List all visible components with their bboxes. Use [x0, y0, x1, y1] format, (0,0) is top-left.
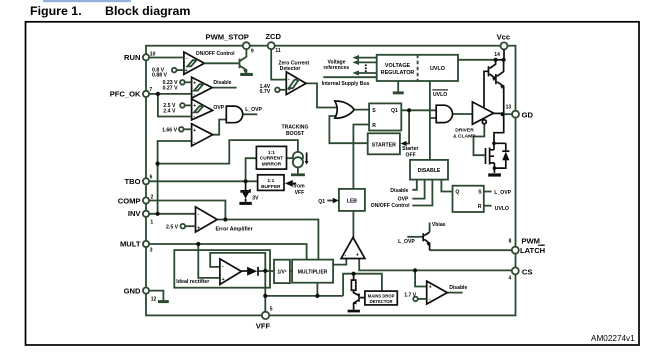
svg-text:5: 5	[270, 306, 273, 312]
pin 4 CS	[512, 267, 519, 274]
ref 2.5V circle	[180, 103, 185, 108]
wire mains drop divider	[343, 274, 382, 296]
svg-text:S: S	[478, 189, 482, 195]
starter off arrow	[401, 141, 407, 146]
driver triangle U9	[472, 102, 493, 124]
svg-text:AM02274v1: AM02274v1	[591, 334, 635, 343]
svg-text:Figure 1.: Figure 1.	[30, 4, 82, 18]
ground GND pin	[158, 300, 169, 303]
svg-text:BUFFER: BUFFER	[261, 184, 281, 190]
pin 12 GND	[143, 288, 149, 294]
wire UVLO stub to AND gate	[430, 117, 436, 119]
wire diode out to 1/V2	[258, 270, 274, 272]
svg-text:9: 9	[251, 49, 254, 55]
zener diode 3V	[245, 181, 247, 191]
svg-text:MAINS DROP: MAINS DROP	[368, 294, 395, 299]
svg-text:R: R	[478, 204, 482, 210]
wire MULT branch to ideal rectifier plus	[198, 244, 220, 278]
pin 1 INV	[143, 211, 149, 217]
svg-text:L_OVP: L_OVP	[245, 107, 262, 113]
node INV junction	[156, 212, 160, 216]
pin 8 PWM_LATCH	[512, 247, 519, 254]
MOSFET M1	[486, 148, 490, 165]
svg-text:+: +	[197, 225, 200, 231]
current source arrow	[306, 153, 308, 162]
op-amp U6 rectifier	[220, 259, 242, 285]
node COMP-EA out	[223, 217, 227, 221]
wire 1.66V comp output to AND gate	[213, 120, 227, 135]
transistor Q4 lower	[495, 74, 497, 84]
svg-text:OFF: OFF	[406, 152, 416, 158]
wire latch Q1 to AND gate	[401, 109, 436, 111]
svg-text:ON/OFF Control: ON/OFF Control	[196, 51, 235, 57]
svg-text:2: 2	[151, 195, 154, 201]
wire CS to PWM comparator plus	[359, 259, 512, 271]
wire MULT pin3 to multiplier	[149, 244, 307, 260]
svg-text:STARTER: STARTER	[372, 142, 396, 148]
current mirror box	[256, 146, 286, 169]
svg-text:MULT: MULT	[120, 240, 141, 249]
pin 7 PFC_OK	[143, 91, 149, 97]
current source I1	[293, 152, 303, 162]
AND gate L_OVP	[226, 106, 242, 123]
wire multiplier output to PWM comparator minus	[333, 259, 346, 265]
node mosfet diode top	[492, 142, 496, 146]
rail to transistors	[496, 59, 504, 61]
svg-text:REGULATOR: REGULATOR	[381, 70, 415, 76]
ref 2.5V circle EA	[181, 224, 186, 229]
pin 5 VFF	[262, 312, 269, 319]
wire Q1 branch starter off	[405, 110, 410, 143]
svg-text:+: +	[193, 80, 196, 86]
latch FF2 Q S R	[453, 186, 484, 212]
from VFF arrow	[285, 180, 293, 187]
pin 6 TBO	[143, 178, 149, 184]
pin 2 COMP	[143, 197, 149, 203]
wire COMP pin2 to EA output	[149, 201, 226, 220]
svg-text:0.88 V: 0.88 V	[152, 72, 168, 78]
svg-text:CURRENT: CURRENT	[260, 156, 284, 162]
svg-text:6: 6	[150, 175, 153, 181]
comparator U1 ON/OFF control	[184, 52, 204, 74]
svg-text:+: +	[222, 277, 225, 283]
wire CS branch to 1.7V comparator	[415, 270, 427, 286]
svg-text:COMP: COMP	[118, 197, 141, 206]
svg-text:Q1: Q1	[318, 199, 325, 205]
svg-text:7: 7	[149, 87, 152, 93]
svg-text:MIRROR: MIRROR	[262, 162, 282, 168]
hysteresis symbol U3	[194, 106, 203, 112]
svg-text:1: 1	[150, 219, 153, 225]
svg-text:CS: CS	[522, 267, 533, 276]
svg-text:8: 8	[509, 239, 512, 245]
wire pin7 branch down to OVP comparator minus	[158, 94, 192, 117]
ground mosfet	[488, 173, 501, 176]
wire AND to driver	[452, 113, 472, 115]
svg-text:4: 4	[509, 276, 512, 282]
pin 11 ZCD	[268, 42, 275, 49]
pin 14 Vcc	[501, 42, 508, 49]
ref 1.66V circle	[179, 127, 184, 132]
svg-text:Detector: Detector	[280, 66, 301, 72]
wire INV pin1 to error amplifier	[149, 213, 196, 215]
svg-text:1:1: 1:1	[267, 178, 274, 184]
box DISABLE	[410, 160, 448, 180]
diode D2 clamp	[494, 143, 506, 168]
svg-text:R: R	[372, 123, 376, 129]
AND gate G2 driver	[436, 105, 452, 122]
base wire to driver	[484, 71, 489, 108]
blue header underline	[43, 0, 131, 2]
node GD	[501, 112, 505, 116]
pin 10 RUN	[143, 54, 149, 60]
svg-text:DISABLE: DISABLE	[418, 168, 441, 174]
op-amp U5 error amplifier	[196, 207, 218, 232]
wire 1/V2 to multiplier	[290, 270, 292, 272]
svg-text:Disable: Disable	[213, 80, 231, 86]
wire PWM_LATCH pin8	[430, 249, 512, 251]
wire regulator to Vcc rail	[458, 59, 496, 61]
svg-text:L_OVP: L_OVP	[398, 239, 415, 245]
svg-text:DRIVER: DRIVER	[455, 127, 474, 133]
wire VFF pin5 vertical	[264, 271, 266, 312]
svg-text:BOOST: BOOST	[286, 131, 305, 137]
svg-text:UVLO: UVLO	[495, 206, 509, 212]
svg-text:0.27 V: 0.27 V	[163, 85, 179, 91]
wire driver apex to GD	[494, 112, 503, 114]
svg-text:Error Amplifier: Error Amplifier	[216, 226, 253, 232]
svg-text:DETECTOR: DETECTOR	[370, 299, 393, 304]
svg-text:3: 3	[150, 248, 153, 254]
svg-text:Disable: Disable	[390, 188, 408, 194]
box MULTIPLIER	[292, 260, 333, 283]
ground regulator	[393, 91, 404, 94]
node MULT branch	[196, 242, 200, 246]
wire disable stub2 ovp	[412, 180, 424, 199]
svg-text:Starter: Starter	[402, 146, 418, 152]
wire EA output to multiplier	[217, 220, 318, 260]
svg-text:OVP: OVP	[213, 105, 224, 111]
wire ZCD output to OR gate	[306, 83, 337, 107]
svg-text:Vbias: Vbias	[432, 222, 446, 228]
pin 9 PWM_STOP	[243, 42, 250, 49]
IC boundary box	[146, 46, 516, 316]
svg-text:2.4 V: 2.4 V	[163, 108, 176, 114]
ref 1.7V circle	[413, 297, 418, 302]
svg-text:GD: GD	[522, 110, 534, 119]
svg-text:references: references	[323, 65, 349, 71]
Vcc stub black	[503, 49, 505, 59]
node resistor divider	[352, 272, 356, 276]
comparator U8 zero current detector	[286, 72, 306, 95]
wire regulator ground stub	[397, 81, 399, 91]
wire OVP AND output stub L_OVP	[243, 113, 258, 115]
svg-text:1.66 V: 1.66 V	[162, 128, 178, 134]
node VFF	[263, 294, 267, 298]
hysteresis symbol U8	[289, 80, 299, 89]
wire rectifier feedback loop	[210, 253, 265, 271]
node TBO zener	[244, 179, 248, 183]
wire disable stub1	[412, 180, 417, 190]
latch FF1 S Q1 R	[369, 103, 401, 130]
svg-text:3V: 3V	[252, 195, 259, 201]
svg-text:VOLTAGE: VOLTAGE	[385, 63, 411, 69]
svg-text:+: +	[429, 284, 432, 290]
wire disable stub3 onoff	[412, 180, 432, 206]
wire U1 output to transistor base	[204, 62, 238, 64]
wire OR output to latch S	[352, 109, 369, 111]
wire tracking boost offset to current source	[158, 140, 298, 164]
wire multiplier VFF input	[316, 283, 318, 296]
svg-text:LATCH: LATCH	[520, 246, 545, 255]
svg-text:10: 10	[150, 52, 156, 58]
buffer box 1:1	[258, 175, 284, 191]
wire starter to OR gate input	[329, 116, 367, 143]
wire 1.7V comparator output stub	[447, 292, 462, 294]
svg-text:0.7V: 0.7V	[260, 89, 271, 95]
wire GND pin12 ground	[149, 291, 163, 301]
comparator U2 Disable	[192, 77, 213, 98]
svg-text:1.7 V: 1.7 V	[404, 293, 416, 299]
OR gate G1	[335, 101, 354, 118]
node mosfet diode bottom	[493, 166, 497, 170]
svg-text:Ideal rectifier: Ideal rectifier	[176, 279, 209, 285]
svg-text:UVLO: UVLO	[433, 92, 447, 98]
svg-text:TRACKING: TRACKING	[282, 124, 309, 130]
svg-text:PFC_OK: PFC_OK	[110, 90, 141, 99]
ground mains drop	[348, 310, 360, 313]
MOSFET drain path	[494, 114, 504, 150]
transistor Q2 L_OVP	[429, 223, 431, 233]
transistor Q3 upper	[488, 66, 490, 76]
wire TBO pin6 line	[149, 180, 258, 182]
svg-text:Q1: Q1	[391, 108, 398, 114]
node Vcc rail right	[502, 58, 506, 62]
wire VFF bus	[265, 295, 343, 297]
svg-text:Internal Supply Bus: Internal Supply Bus	[322, 81, 370, 87]
svg-text:Q: Q	[455, 190, 459, 196]
svg-text:+: +	[193, 128, 196, 134]
wire internal supply bus	[323, 76, 376, 78]
svg-text:INV: INV	[128, 209, 142, 218]
ellipsis dots	[365, 64, 367, 66]
wire current mirror to current source	[287, 157, 294, 159]
wire latch2 R stub	[484, 205, 492, 207]
node tracking boost	[156, 162, 160, 166]
box voltage regulator UVLO	[377, 55, 458, 81]
hysteresis symbol U1	[187, 60, 196, 66]
svg-text:PWM_: PWM_	[521, 237, 545, 246]
ref 1.4V circle	[275, 88, 280, 93]
svg-text:L_OVP: L_OVP	[494, 190, 511, 196]
wire GD to pin13	[504, 113, 513, 115]
svg-text:VFF: VFF	[256, 322, 271, 331]
transistor Q PWM_STOP	[239, 59, 241, 69]
svg-text:S: S	[372, 108, 376, 114]
ground PWM_STOP transistor	[240, 73, 253, 76]
MOSFET source path	[493, 163, 495, 173]
node rectifier out	[263, 269, 267, 273]
wire latch2 S stub	[484, 191, 492, 193]
svg-text:MULTIPLIER: MULTIPLIER	[298, 269, 328, 275]
svg-text:Vcc: Vcc	[497, 32, 511, 41]
svg-text:RUN: RUN	[124, 53, 140, 62]
svg-text:OVP: OVP	[398, 197, 409, 203]
svg-text:13: 13	[506, 105, 512, 111]
svg-text:Disable: Disable	[449, 285, 467, 291]
pin 3 MULT	[143, 241, 149, 247]
svg-text:from: from	[293, 183, 305, 189]
wire clamp gate path	[474, 124, 485, 155]
transistor Q5 mains drop	[358, 294, 360, 302]
svg-text:11: 11	[275, 48, 281, 54]
box 1/V2	[274, 260, 290, 283]
node CS 1.7V branch	[413, 268, 417, 272]
wire RUN pin10 to comparator	[149, 57, 184, 59]
diode D1	[241, 270, 247, 272]
svg-text:+: +	[193, 103, 196, 109]
comparator U4 1.66V	[192, 124, 213, 146]
svg-text:2.5 V: 2.5 V	[166, 225, 179, 231]
wire 1.66V comparator minus down to INV line	[158, 141, 192, 214]
svg-text:ON/OFF Control: ON/OFF Control	[371, 203, 410, 209]
comparator U7 PWM	[341, 237, 365, 258]
wire PWM comparator to LEB	[352, 211, 354, 237]
svg-text:LEB: LEB	[347, 198, 357, 204]
svg-text:+: +	[185, 68, 188, 74]
wire disable comp output stub	[212, 87, 236, 89]
resistor R1	[353, 274, 355, 294]
wire Vbias transistor base	[407, 236, 423, 238]
wire UVLO down to disable box	[429, 81, 431, 160]
node pin7 branch	[156, 92, 160, 96]
svg-text:PWM_STOP: PWM_STOP	[206, 33, 249, 42]
wire LEB to latch R input	[353, 125, 369, 190]
wire disable to latch Q	[441, 180, 452, 192]
ground current source	[291, 173, 305, 176]
svg-text:ZCD: ZCD	[265, 32, 281, 41]
wire PFC_OK pin7 to Disable comparator minus	[149, 93, 192, 95]
node Vcc rail left	[494, 58, 498, 62]
node Q1 starter	[407, 108, 411, 112]
wire ZCD pin11 down to detector	[271, 49, 286, 79]
svg-text:1/V²: 1/V²	[277, 270, 287, 276]
node VFF multiplier	[315, 294, 319, 298]
svg-text:GND: GND	[124, 287, 141, 296]
svg-text:14: 14	[494, 52, 500, 58]
comparator U10 1.7V	[427, 281, 448, 304]
svg-text:UVLO: UVLO	[430, 66, 445, 72]
box STARTER	[368, 133, 400, 154]
svg-text:VFF: VFF	[295, 190, 305, 196]
svg-text:1:1: 1:1	[268, 150, 275, 156]
wire current mirror to tbo node	[246, 158, 257, 181]
comparator U3 OVP	[192, 99, 213, 120]
box LEB	[339, 189, 365, 211]
svg-text:Block diagram: Block diagram	[105, 4, 190, 18]
pin 13 GD	[512, 111, 519, 118]
hysteresis symbol U2	[194, 84, 203, 90]
svg-text:12: 12	[151, 297, 157, 303]
box MAINS DROP DETECTOR	[365, 291, 397, 305]
ref 0.23V circle	[180, 80, 185, 85]
svg-text:+: +	[356, 253, 359, 259]
ideal rectifier box	[174, 250, 270, 288]
voltage reference arrows	[358, 58, 377, 73]
svg-text:TBO: TBO	[124, 177, 140, 186]
ground zener	[239, 202, 251, 205]
ref 0.8V circle	[172, 68, 177, 73]
svg-text:& CLAMP: & CLAMP	[453, 134, 476, 140]
